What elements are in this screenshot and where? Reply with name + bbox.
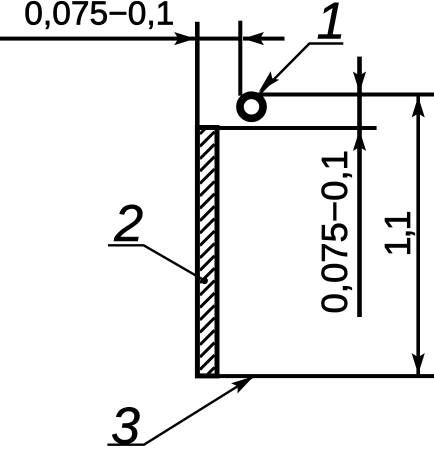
svg-text:3: 3 [111,398,140,450]
svg-text:1,1: 1,1 [377,211,418,256]
svg-text:0,075−0,1: 0,075−0,1 [24,0,174,32]
svg-text:0,075−0,1: 0,075−0,1 [314,150,355,313]
